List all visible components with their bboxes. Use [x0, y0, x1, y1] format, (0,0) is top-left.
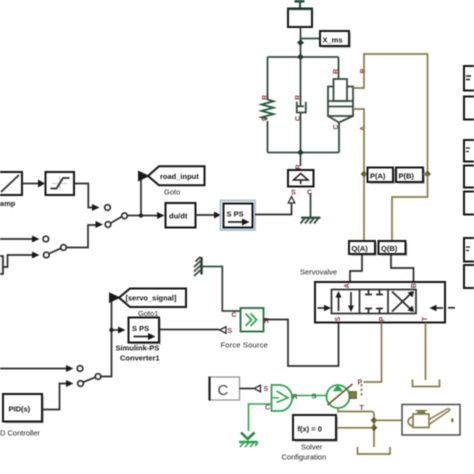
svg-text:road_input: road_input: [160, 172, 199, 181]
block Constant C: [210, 377, 240, 401]
goto tag servo_signal: [109, 289, 186, 319]
mass reference bar top: [295, 0, 305, 9]
tag Q(B): [379, 241, 408, 256]
cut block right edge 3: [464, 140, 474, 162]
svg-text:P: P: [358, 380, 363, 387]
svg-text:Solver: Solver: [301, 443, 323, 452]
wire T to solver: [336, 427, 374, 429]
svg-text:Q(A): Q(A): [352, 244, 369, 253]
block Saturation: [46, 172, 75, 195]
wire T to oil block: [374, 419, 402, 421]
svg-text:D Controller: D Controller: [0, 429, 41, 438]
tag P(A): [368, 168, 396, 185]
node road junction: [139, 176, 157, 218]
valve left cell arrows: [336, 291, 355, 312]
block du/dt: [166, 203, 196, 228]
svg-text:f(x) = 0: f(x) = 0: [298, 425, 322, 434]
svg-text:Configuration: Configuration: [282, 453, 327, 462]
spring branch wire: [267, 57, 269, 100]
svg-text:S: S: [264, 386, 269, 393]
spring (Translational Spring): [262, 100, 274, 119]
cylinder C wire: [338, 123, 340, 153]
svg-text:Converter1: Converter1: [120, 354, 160, 363]
tank symbol (pump T): [358, 447, 391, 454]
svg-text:T: T: [360, 405, 365, 412]
wire Q(A) to valve A: [350, 254, 362, 282]
wire cylinder B to P(B): [353, 54, 428, 174]
svg-text:S: S: [291, 190, 296, 197]
block Simulink-PS Converter (selected, blue halo): [221, 201, 256, 231]
block Solver Configuration: [282, 415, 339, 462]
mechanical reference ground (velocity source): [301, 218, 321, 224]
wire top bus: [268, 54, 339, 61]
manual switch SW3: [77, 298, 111, 387]
valve pilot arrow right: [430, 305, 444, 311]
wire Force Source R to valve S: [264, 320, 339, 367]
damper branch wire: [300, 57, 302, 99]
wire du/dt to SPS: [196, 212, 222, 219]
block source (cut at left edge): [0, 252, 40, 275]
block servovalve body: [315, 282, 445, 323]
node T junction 1: [371, 417, 378, 424]
tag P(B): [396, 168, 425, 185]
tank symbol (valve T): [413, 380, 440, 387]
wire ground to Force Source C: [203, 267, 241, 320]
svg-text:du/dt: du/dt: [169, 212, 188, 221]
green ground: [239, 433, 258, 448]
wire cylinder A to P(A)/Q(A): [353, 109, 364, 241]
svg-text:S: S: [335, 316, 342, 321]
damper (Translational Damper): [297, 99, 306, 113]
wire SPS to velocity source S port: [255, 197, 295, 215]
block Simulink-PS Converter1: [116, 318, 162, 363]
wire Q(B) to valve B: [391, 254, 414, 282]
svg-text:A: A: [344, 283, 351, 288]
cut block right edge 1: [464, 66, 474, 91]
pump T wire: [338, 405, 374, 447]
wire Saturation to Switch1 input1: [74, 184, 100, 212]
wire converter R to pump S: [292, 392, 327, 401]
svg-text:S PS: S PS: [227, 210, 244, 219]
node mass junction: [301, 38, 320, 40]
valve pilot arrow left: [318, 305, 332, 311]
tag Q(A): [349, 241, 377, 256]
wire valve P to pump P: [358, 323, 382, 397]
svg-text:R: R: [296, 164, 303, 169]
wire from left edge to SW2 input1: [0, 236, 40, 243]
node P(A) junction: [361, 171, 368, 178]
manual switch SW2: [43, 221, 103, 258]
svg-text:Servovalve: Servovalve: [300, 268, 337, 277]
svg-text:Goto: Goto: [164, 188, 180, 197]
svg-text:Ramp: Ramp: [0, 199, 16, 208]
block translational converter (green D): [265, 385, 298, 412]
valve middle cell closed ports: [365, 290, 383, 314]
wire B line down to Q(B): [392, 174, 428, 241]
velocity source R wire: [300, 153, 302, 167]
svg-text:C: C: [232, 312, 237, 319]
wire Converter1 to Force Source S: [159, 327, 233, 335]
svg-text:P: P: [379, 316, 386, 321]
pump (servovalve actuator): [327, 384, 353, 408]
block Mass: [288, 9, 312, 28]
svg-text:Force Source: Force Source: [221, 341, 268, 350]
node servo junction: [109, 327, 125, 334]
block Custom Hydraulic Fluid (oil): [402, 405, 460, 436]
wire from left edge to SW3 input1: [0, 365, 74, 372]
wire converter C to green ground: [249, 404, 272, 431]
svg-text:P(B): P(B): [399, 172, 415, 181]
manual switch SW1: [105, 205, 141, 228]
svg-text:C: C: [218, 382, 229, 399]
dash right of valve: [448, 307, 455, 309]
svg-text:B: B: [411, 283, 418, 288]
node P(B) junction: [424, 171, 431, 178]
wire C to converter S: [240, 385, 269, 393]
svg-text:S: S: [228, 328, 233, 335]
wire into du/dt: [157, 212, 165, 219]
cylinder branch wire (R): [338, 57, 340, 79]
block PID Controller: [0, 394, 44, 438]
wire bottom bus: [268, 149, 340, 156]
goto tag X_ms: [320, 31, 351, 48]
svg-text:[servo_signal]: [servo_signal]: [126, 294, 177, 303]
cut block right edge 5: [464, 192, 474, 215]
cut block right edge 6: [464, 238, 474, 262]
svg-text:P(A): P(A): [370, 172, 386, 181]
svg-text:S PS: S PS: [132, 324, 149, 333]
svg-text:Q(B): Q(B): [381, 244, 398, 253]
svg-text:C: C: [265, 405, 270, 412]
svg-text:X_ms: X_ms: [323, 36, 343, 45]
node T junction 2: [371, 424, 378, 431]
valve right cell crossed arrows: [392, 291, 414, 312]
wire valve T to tank: [425, 323, 427, 381]
pump P port square: [350, 392, 357, 399]
wire velocity source C to ground: [310, 193, 312, 218]
block Force Source: [221, 308, 270, 350]
goto tag road_input: [138, 166, 205, 196]
svg-text:Simulink-PS: Simulink-PS: [116, 344, 160, 353]
hydraulic cylinder (Translational Converter): [328, 79, 353, 123]
wire mass down: [300, 27, 302, 57]
svg-text:S: S: [312, 392, 317, 401]
cut block right edge 4: [464, 166, 474, 188]
wire PID to SW3 input2: [42, 380, 74, 410]
block Ideal Translational Velocity Source: [288, 170, 314, 187]
wire Ramp to Saturation: [22, 180, 45, 188]
damper bottom wire: [300, 113, 302, 153]
svg-text:T: T: [422, 316, 429, 321]
block Ramp (cut at left edge): [0, 172, 22, 208]
cut block right edge 2: [464, 97, 474, 120]
spring bottom wire: [267, 121, 269, 153]
svg-text:PID(s): PID(s): [9, 405, 31, 414]
svg-text:C: C: [262, 116, 269, 121]
svg-text:R: R: [333, 69, 340, 74]
mechanical reference ground (force source C): [194, 257, 202, 276]
cut block right edge 7: [464, 265, 474, 288]
